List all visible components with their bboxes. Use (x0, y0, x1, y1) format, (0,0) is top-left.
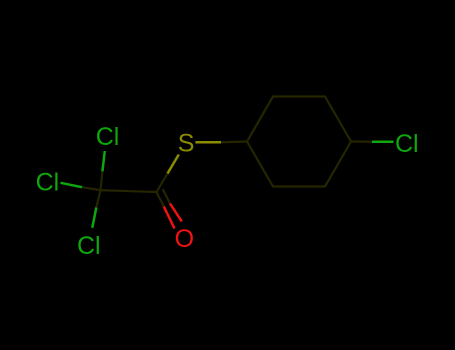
wire: bond S-ring dark half (221, 140, 247, 143)
wire: bond S-C2 olive half (168, 155, 179, 174)
svg-text:Cl: Cl (395, 130, 419, 158)
wire: bond C2=O red half second line (170, 204, 182, 222)
wire: bond C1-Cl(top) dark half (101, 171, 103, 190)
wire: bond C1-C2 dark (101, 190, 157, 192)
wire: bond C1-Cl(top) green half (102, 151, 104, 171)
svg-text:O: O (175, 225, 194, 253)
wire: bond ring-Cl(right) green half (372, 140, 394, 143)
benzene ring dark hexagon (247, 97, 351, 187)
wire: bond C1-Cl(left) green half (61, 183, 83, 187)
svg-text:Cl: Cl (36, 169, 60, 197)
svg-text:S: S (178, 130, 195, 158)
svg-text:Cl: Cl (77, 232, 101, 260)
wire: bond C2=O red half main line (164, 207, 175, 229)
wire: bond C1-Cl(bottom) dark half (96, 190, 100, 207)
wire: bond C2-S dark half (157, 174, 168, 193)
svg-text:Cl: Cl (96, 123, 120, 151)
wire: bond C1-Cl(left) dark half (82, 187, 101, 190)
wire: bond C1-Cl(bottom) green half (92, 208, 96, 228)
wire: bond S-ring olive half (195, 141, 221, 144)
wire: bond C2=O dark half main line (157, 192, 164, 207)
wire: bond C2=O dark half second line (163, 189, 170, 204)
wire: bond ring-Cl(right) dark half (351, 140, 372, 142)
